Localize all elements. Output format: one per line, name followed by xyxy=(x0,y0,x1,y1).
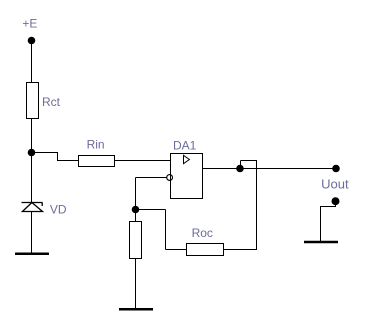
svg-text:Roc: Roc xyxy=(192,226,213,240)
svg-text:VD: VD xyxy=(50,202,67,216)
svg-text:Uout: Uout xyxy=(321,176,349,191)
svg-text:DA1: DA1 xyxy=(173,138,197,152)
svg-text:+E: +E xyxy=(22,17,37,31)
svg-text:Rin: Rin xyxy=(87,137,105,151)
svg-text:Rct: Rct xyxy=(42,95,61,109)
